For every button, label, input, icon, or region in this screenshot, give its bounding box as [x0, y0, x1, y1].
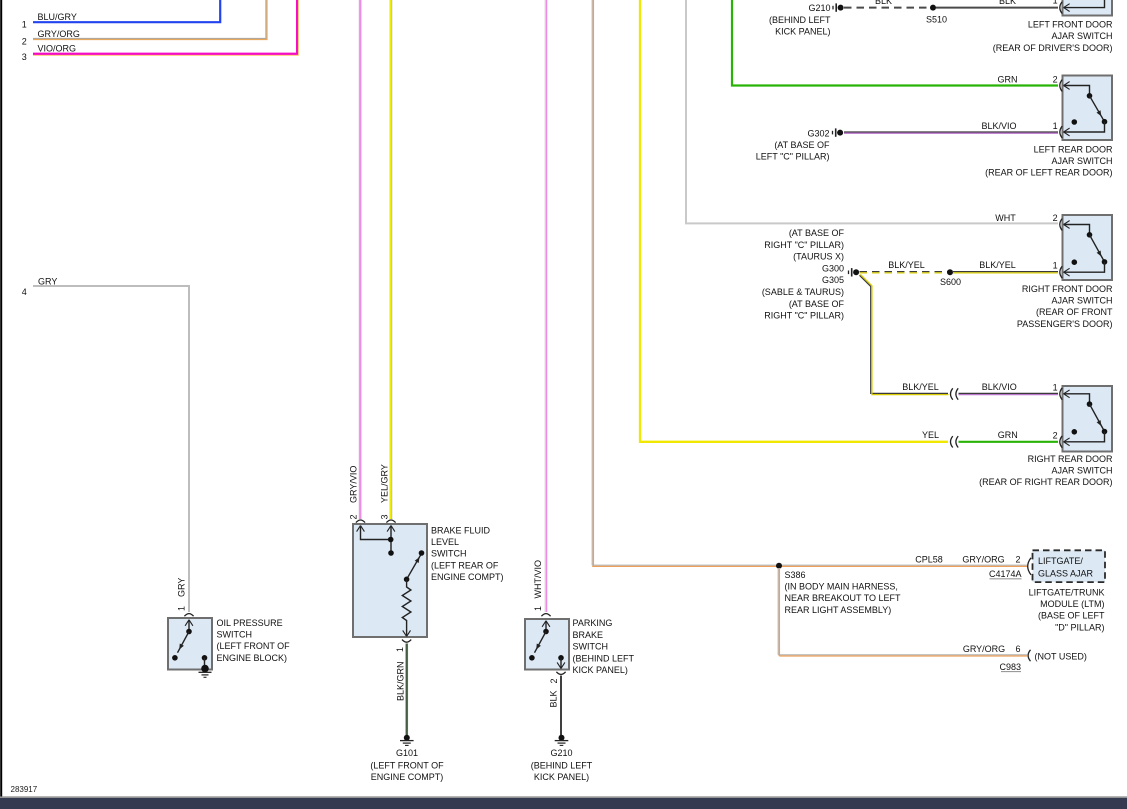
svg-text:BLU/GRY: BLU/GRY [38, 12, 77, 22]
wire GRN to right rear door switch pin 2 [959, 441, 1059, 443]
svg-text:LEFT REAR DOOR: LEFT REAR DOOR [1034, 144, 1113, 154]
svg-text:BLK/GRN: BLK/GRN [396, 661, 406, 701]
svg-text:S600: S600 [940, 277, 961, 287]
svg-text:2: 2 [349, 514, 359, 519]
wire YEL vertical + horizontal to right rear door connector [640, 0, 948, 442]
svg-text:(LEFT FRONT OF: (LEFT FRONT OF [370, 760, 444, 770]
svg-text:NEAR BREAKOUT TO LEFT: NEAR BREAKOUT TO LEFT [785, 593, 902, 603]
svg-text:BLK/YEL: BLK/YEL [888, 260, 925, 270]
svg-text:(IN BODY MAIN HARNESS,: (IN BODY MAIN HARNESS, [785, 582, 898, 592]
svg-text:(LEFT FRONT OF: (LEFT FRONT OF [217, 641, 291, 651]
svg-text:BLK/VIO: BLK/VIO [982, 382, 1017, 392]
wire 1 BLU/GRY [33, 0, 220, 22]
svg-text:OIL PRESSURE: OIL PRESSURE [217, 618, 283, 628]
svg-text:GRY/VIO: GRY/VIO [349, 466, 359, 503]
svg-text:(BEHIND LEFT: (BEHIND LEFT [769, 15, 831, 25]
svg-text:1: 1 [395, 647, 405, 652]
svg-text:GRY/ORG: GRY/ORG [38, 29, 80, 39]
svg-text:2: 2 [1053, 213, 1058, 223]
wire GRN vertical + horizontal to left rear door switch [732, 0, 1058, 86]
svg-text:WHT: WHT [995, 213, 1016, 223]
svg-text:SWITCH: SWITCH [431, 549, 467, 559]
svg-text:(REAR OF RIGHT REAR DOOR): (REAR OF RIGHT REAR DOOR) [979, 477, 1112, 487]
svg-text:GRN: GRN [998, 430, 1018, 440]
svg-text:CPL58: CPL58 [915, 555, 943, 565]
wire GRY/ORG horizontal to liftgate connector [592, 564, 1027, 566]
wire 3 VIO/ORG [33, 0, 297, 54]
splice S510 [930, 5, 936, 11]
wire BLK/GRN to G101 [405, 644, 407, 736]
switch left rear door ajar [1063, 76, 1113, 141]
wire 4 GRY to oil pressure switch [33, 286, 189, 612]
switch arm [407, 554, 422, 580]
svg-text:KICK PANEL): KICK PANEL) [573, 665, 628, 675]
svg-text:G302: G302 [807, 128, 829, 138]
svg-text:BLK/VIO: BLK/VIO [981, 121, 1016, 131]
svg-text:LEFT FRONT DOOR: LEFT FRONT DOOR [1028, 20, 1113, 30]
switch brake fluid level [353, 524, 427, 637]
connector ( not used [1028, 650, 1030, 661]
svg-text:1: 1 [1053, 383, 1058, 393]
svg-text:3: 3 [380, 514, 390, 519]
wire BLK to G210 [560, 676, 562, 736]
splice S600 [947, 269, 953, 275]
resistor element [402, 579, 411, 630]
svg-text:BLK: BLK [999, 0, 1016, 6]
svg-text:(REAR OF LEFT REAR DOOR): (REAR OF LEFT REAR DOOR) [985, 168, 1112, 178]
svg-text:AJAR SWITCH: AJAR SWITCH [1051, 31, 1112, 41]
svg-text:LEVEL: LEVEL [431, 537, 459, 547]
svg-text:GLASS AJAR: GLASS AJAR [1038, 569, 1094, 579]
svg-text:KICK PANEL): KICK PANEL) [775, 27, 830, 37]
svg-text:REAR LIGHT ASSEMBLY): REAR LIGHT ASSEMBLY) [785, 605, 892, 615]
ground G210 (top) [832, 6, 834, 10]
page left border line [0, 0, 2, 797]
svg-text:1: 1 [1053, 121, 1058, 131]
switch left front door ajar (partial) [1063, 0, 1113, 16]
wire YEL/GRY vertical [389, 0, 391, 519]
svg-text:BLK/YEL: BLK/YEL [979, 260, 1016, 270]
svg-text:(AT BASE OF: (AT BASE OF [774, 140, 830, 150]
svg-text:G101: G101 [396, 748, 418, 758]
wire BLK/YEL branch from G300 down [860, 275, 949, 393]
ground G101 [404, 735, 410, 741]
svg-text:GRY: GRY [38, 276, 57, 286]
svg-text:(REAR OF FRONT: (REAR OF FRONT [1036, 307, 1113, 317]
svg-text:2: 2 [22, 36, 27, 46]
svg-text:PARKING: PARKING [573, 618, 613, 628]
svg-text:C983: C983 [999, 662, 1021, 672]
svg-text:2: 2 [1015, 555, 1020, 565]
svg-text:AJAR SWITCH: AJAR SWITCH [1051, 466, 1112, 476]
svg-text:BRAKE: BRAKE [573, 630, 604, 640]
ground G300/G305 [848, 271, 850, 275]
svg-text:PASSENGER'S DOOR): PASSENGER'S DOOR) [1017, 319, 1113, 329]
switch parking brake [541, 614, 550, 617]
svg-text:S510: S510 [926, 15, 947, 25]
wire GRY/ORG vertical to S386 [591, 0, 593, 565]
splice S386 [776, 563, 782, 569]
svg-text:SWITCH: SWITCH [217, 630, 253, 640]
svg-text:S386: S386 [785, 570, 806, 580]
wire BLK/YEL S600 to right front door switch [953, 271, 1058, 273]
svg-text:C4174A: C4174A [989, 569, 1022, 579]
svg-text:MODULE (LTM): MODULE (LTM) [1040, 599, 1104, 609]
svg-text:BLK/YEL: BLK/YEL [902, 382, 939, 392]
svg-text:ENGINE COMPT): ENGINE COMPT) [431, 572, 504, 582]
svg-text:(BEHIND LEFT: (BEHIND LEFT [573, 653, 635, 663]
ground at oil pressure switch [201, 665, 209, 673]
svg-text:LIFTGATE/: LIFTGATE/ [1038, 556, 1083, 566]
inline connector (( lower [951, 436, 953, 447]
svg-text:283917: 283917 [11, 785, 38, 794]
svg-text:(NOT USED): (NOT USED) [1035, 652, 1087, 662]
svg-text:GRN: GRN [998, 75, 1018, 85]
svg-text:RIGHT "C" PILLAR): RIGHT "C" PILLAR) [764, 311, 844, 321]
svg-text:ENGINE COMPT): ENGINE COMPT) [371, 772, 444, 782]
liftgate/glass ajar dashed box [1033, 550, 1106, 582]
svg-text:"D" PILLAR): "D" PILLAR) [1055, 622, 1104, 632]
svg-text:LIFTGATE/TRUNK: LIFTGATE/TRUNK [1029, 588, 1105, 598]
wire BLK S510 to left front door switch [936, 7, 1058, 9]
svg-text:1: 1 [533, 606, 543, 611]
wire GRY/VIO vertical [358, 0, 360, 519]
svg-text:LEFT "C" PILLAR): LEFT "C" PILLAR) [756, 152, 830, 162]
svg-text:AJAR SWITCH: AJAR SWITCH [1051, 296, 1112, 306]
svg-text:ENGINE BLOCK): ENGINE BLOCK) [217, 653, 288, 663]
svg-text:2: 2 [1053, 74, 1058, 84]
wire WHT vertical + horizontal to right front door switch [686, 0, 1058, 223]
svg-text:BRAKE FLUID: BRAKE FLUID [431, 526, 491, 536]
svg-text:(SABLE & TAURUS): (SABLE & TAURUS) [762, 287, 844, 297]
svg-text:YEL: YEL [922, 430, 939, 440]
svg-text:WHT/VIO: WHT/VIO [533, 560, 543, 599]
svg-text:(TAURUS X): (TAURUS X) [793, 252, 844, 262]
ground G210 (bottom) [559, 735, 565, 741]
svg-text:G210: G210 [550, 748, 572, 758]
svg-text:2: 2 [1053, 430, 1058, 440]
svg-text:YEL/GRY: YEL/GRY [380, 464, 390, 503]
wire 2 GRY/ORG [33, 0, 266, 38]
svg-text:(AT BASE OF: (AT BASE OF [789, 228, 845, 238]
svg-text:(BEHIND LEFT: (BEHIND LEFT [531, 760, 593, 770]
connector ( at liftgate module [1028, 558, 1031, 575]
svg-text:(REAR OF DRIVER'S DOOR): (REAR OF DRIVER'S DOOR) [993, 43, 1113, 53]
svg-text:G300: G300 [822, 263, 844, 273]
svg-text:3: 3 [22, 52, 27, 62]
wire WHT/VIO vertical [544, 0, 546, 612]
wire GRY/ORG S386 down to C983 [778, 568, 1027, 655]
ground G302 [832, 131, 834, 135]
svg-text:RIGHT "C" PILLAR): RIGHT "C" PILLAR) [764, 240, 844, 250]
svg-text:2: 2 [549, 678, 559, 683]
svg-text:G210: G210 [808, 3, 830, 13]
wire BLK dashed G210 to S510 [844, 7, 933, 9]
svg-text:RIGHT FRONT DOOR: RIGHT FRONT DOOR [1022, 284, 1113, 294]
svg-text:1: 1 [1053, 261, 1058, 271]
wire BLK/YEL dashed G300 to S600 [860, 271, 951, 273]
svg-text:1: 1 [22, 20, 27, 30]
svg-text:(AT BASE OF: (AT BASE OF [789, 299, 845, 309]
svg-text:BLK: BLK [549, 690, 559, 707]
svg-text:(LEFT REAR OF: (LEFT REAR OF [431, 560, 499, 570]
wire BLK/VIO G302 to left rear door switch [844, 131, 1058, 133]
svg-text:1: 1 [1053, 0, 1058, 6]
switch right front door ajar [1063, 215, 1113, 280]
svg-text:VIO/ORG: VIO/ORG [38, 44, 77, 54]
switch right rear door ajar [1063, 386, 1113, 452]
svg-text:RIGHT REAR DOOR: RIGHT REAR DOOR [1028, 454, 1113, 464]
switch oil pressure [184, 614, 193, 617]
footer separator line [0, 796, 1127, 798]
svg-text:1: 1 [177, 606, 187, 611]
svg-text:GRY: GRY [177, 578, 187, 597]
svg-text:G305: G305 [822, 275, 844, 285]
wire BLK/VIO to right rear door switch pin 1 [959, 392, 1059, 394]
svg-text:KICK PANEL): KICK PANEL) [534, 772, 589, 782]
footer bar [0, 798, 1127, 809]
svg-text:4: 4 [22, 287, 27, 297]
svg-text:BLK: BLK [875, 0, 892, 6]
svg-text:AJAR SWITCH: AJAR SWITCH [1051, 156, 1112, 166]
svg-text:GRY/ORG: GRY/ORG [962, 555, 1004, 565]
svg-text:SWITCH: SWITCH [573, 642, 609, 652]
inline connector (( upper [951, 388, 953, 399]
svg-text:6: 6 [1015, 644, 1020, 654]
svg-text:GRY/ORG: GRY/ORG [963, 644, 1005, 654]
svg-text:(BASE OF LEFT: (BASE OF LEFT [1038, 611, 1105, 621]
